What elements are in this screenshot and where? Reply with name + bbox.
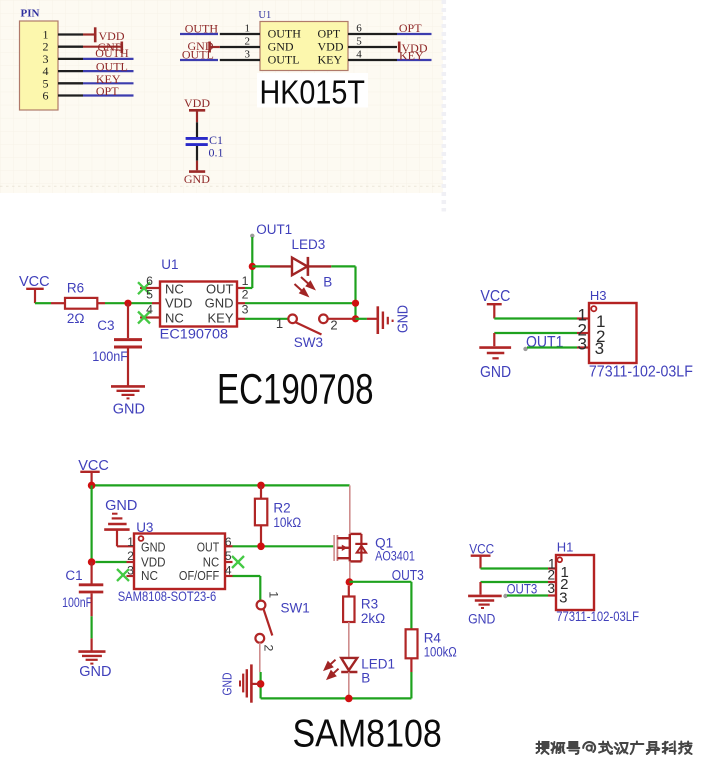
svg-text:3: 3 (245, 49, 251, 61)
svg-text:100nF: 100nF (62, 595, 92, 610)
svg-text:OUTL: OUTL (268, 52, 300, 66)
svg-text:R2: R2 (273, 501, 290, 516)
svg-text:H1: H1 (557, 540, 574, 555)
svg-text:3: 3 (547, 581, 555, 596)
svg-text:2: 2 (245, 36, 251, 48)
svg-text:3: 3 (559, 589, 567, 606)
svg-text:SW3: SW3 (294, 335, 323, 350)
svg-text:SW1: SW1 (281, 600, 310, 615)
svg-text:C1: C1 (65, 568, 82, 583)
svg-text:OUTL: OUTL (182, 48, 214, 62)
svg-text:NC: NC (165, 311, 184, 326)
svg-text:77311-102-03LF: 77311-102-03LF (556, 609, 639, 624)
svg-text:5: 5 (356, 36, 362, 48)
svg-text:OUTH: OUTH (95, 46, 129, 60)
svg-text:6: 6 (356, 23, 362, 35)
svg-text:2kΩ: 2kΩ (361, 611, 385, 626)
svg-text:R3: R3 (361, 597, 378, 612)
svg-text:2: 2 (262, 645, 276, 652)
svg-text:GND: GND (480, 364, 511, 381)
svg-text:EC190708: EC190708 (160, 326, 228, 341)
svg-text:OUTH: OUTH (268, 27, 302, 41)
svg-text:GND: GND (79, 664, 111, 680)
svg-text:VDD: VDD (184, 96, 210, 110)
svg-text:10kΩ: 10kΩ (273, 515, 301, 530)
svg-text:R6: R6 (67, 281, 84, 296)
svg-text:OPT: OPT (399, 21, 422, 35)
svg-text:77311-102-03LF: 77311-102-03LF (589, 364, 693, 381)
svg-text:100kΩ: 100kΩ (424, 644, 457, 659)
svg-text:2: 2 (242, 287, 249, 301)
svg-text:VDD: VDD (165, 296, 192, 311)
svg-text:VCC: VCC (480, 288, 510, 305)
svg-text:4: 4 (146, 303, 153, 317)
svg-text:GND: GND (396, 305, 412, 333)
svg-text:B: B (361, 671, 370, 686)
svg-text:2Ω: 2Ω (67, 311, 85, 326)
svg-text:NC: NC (141, 568, 158, 583)
svg-text:100nF: 100nF (92, 349, 128, 364)
svg-text:B: B (323, 275, 332, 290)
svg-text:GND: GND (113, 402, 145, 418)
svg-text:U1: U1 (258, 10, 271, 21)
svg-text:OUT3: OUT3 (392, 568, 424, 584)
svg-text:OUT: OUT (206, 282, 234, 297)
svg-text:GND: GND (184, 172, 210, 186)
svg-text:1: 1 (245, 23, 251, 35)
svg-text:VCC: VCC (19, 274, 50, 290)
svg-text:1: 1 (267, 591, 281, 598)
svg-text:OUT: OUT (197, 540, 219, 555)
svg-text:OF/OFF: OF/OFF (179, 568, 219, 583)
svg-text:SAM8108-SOT23-6: SAM8108-SOT23-6 (118, 589, 217, 604)
svg-text:1: 1 (276, 316, 283, 331)
svg-text:GND: GND (205, 296, 234, 311)
svg-text:OPT: OPT (96, 84, 119, 98)
svg-text:OPT: OPT (318, 27, 341, 41)
svg-text:C3: C3 (97, 318, 114, 333)
svg-text:LED1: LED1 (361, 656, 395, 671)
svg-text:NC: NC (165, 282, 184, 297)
svg-text:U1: U1 (161, 257, 178, 272)
svg-text:1: 1 (127, 535, 134, 549)
svg-text:GND: GND (105, 498, 137, 514)
svg-text:5: 5 (146, 287, 153, 301)
svg-text:3: 3 (595, 339, 604, 358)
svg-text:6: 6 (43, 89, 49, 103)
svg-text:HK015T: HK015T (260, 74, 365, 111)
svg-text:2: 2 (330, 318, 337, 333)
svg-text:EC190708: EC190708 (217, 367, 374, 414)
svg-text:VCC: VCC (469, 542, 494, 557)
svg-text:H3: H3 (590, 288, 607, 303)
svg-text:KEY: KEY (318, 52, 343, 66)
svg-text:SAM8108: SAM8108 (293, 712, 442, 755)
svg-text:KEY: KEY (399, 49, 424, 63)
svg-text:GND: GND (468, 612, 496, 627)
svg-text:4: 4 (356, 49, 362, 61)
svg-text:0.1: 0.1 (209, 145, 224, 159)
svg-text:1: 1 (242, 274, 249, 288)
svg-text:3: 3 (578, 335, 587, 354)
svg-text:OUT1: OUT1 (256, 222, 292, 237)
svg-text:GND: GND (220, 673, 235, 696)
svg-text:PIN: PIN (21, 7, 40, 19)
svg-text:AO3401: AO3401 (375, 549, 415, 564)
svg-text:OUTH: OUTH (185, 22, 219, 36)
svg-text:KEY: KEY (207, 311, 233, 326)
svg-text:GND: GND (141, 540, 166, 555)
svg-text:OUT3: OUT3 (507, 582, 538, 597)
svg-text:6: 6 (146, 274, 153, 288)
svg-text:3: 3 (242, 303, 249, 317)
svg-text:LED3: LED3 (292, 237, 326, 252)
